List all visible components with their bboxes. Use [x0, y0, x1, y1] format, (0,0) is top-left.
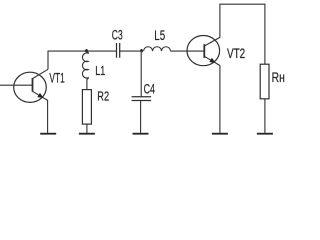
inductor L1	[82, 51, 88, 90]
node A	[85, 49, 88, 52]
wire	[48, 51, 116, 69]
ground	[257, 133, 273, 135]
node B	[140, 49, 143, 52]
transistor VT1	[14, 69, 48, 102]
svg-text:L1: L1	[95, 63, 105, 78]
wire	[220, 4, 265, 64]
wire	[120, 50, 142, 52]
resistor RH	[260, 64, 269, 99]
capacitor C4	[132, 51, 152, 133]
svg-text:C4: C4	[144, 81, 156, 97]
svg-text:C3: C3	[112, 27, 123, 43]
ground	[79, 133, 95, 135]
svg-text:Rн: Rн	[272, 70, 285, 85]
ground	[133, 133, 149, 135]
svg-text:VT2: VT2	[227, 46, 245, 61]
wire	[264, 99, 266, 133]
wire	[0, 84, 33, 86]
svg-text:R2: R2	[97, 89, 109, 104]
wire	[219, 65, 221, 132]
ground	[40, 100, 56, 135]
svg-text:VT1: VT1	[49, 70, 64, 86]
wire	[171, 50, 205, 52]
resistor R2	[82, 90, 91, 125]
svg-text:L5: L5	[154, 28, 165, 43]
wire	[86, 124, 88, 133]
transistor VT2	[187, 36, 220, 66]
capacitor C3	[117, 43, 120, 58]
inductor L5	[144, 47, 171, 51]
ground	[212, 133, 228, 135]
